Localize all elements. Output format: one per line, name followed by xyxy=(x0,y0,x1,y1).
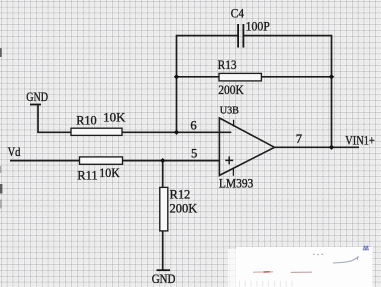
scan artifact left edge 3 xyxy=(0,184,2,194)
resistor R11 xyxy=(80,157,123,164)
watermark white box xyxy=(228,247,373,287)
svg-text:VIN1+: VIN1+ xyxy=(345,134,375,148)
designator tick top xyxy=(233,120,235,127)
capacitor C4 xyxy=(238,24,243,48)
scan artifact left edge 4 xyxy=(0,200,2,209)
wire GND stem top left xyxy=(37,105,39,133)
watermark faint grid ticks bottom xyxy=(239,281,292,287)
svg-text:200K: 200K xyxy=(218,83,244,97)
designator tick bottom xyxy=(232,168,234,176)
junction at pin5 / R12 xyxy=(160,158,165,163)
watermark red stroke left xyxy=(253,271,273,273)
svg-text:Vd: Vd xyxy=(8,145,21,159)
op-amp U3B xyxy=(219,118,274,176)
svg-text:U3B: U3B xyxy=(220,105,239,117)
plus symbol xyxy=(225,159,233,161)
svg-text:GND: GND xyxy=(26,90,48,104)
watermark scribble xyxy=(333,257,358,263)
wire right vertical of feedback xyxy=(331,35,333,148)
wire output pin 7 xyxy=(275,146,360,148)
junction at output / feedback right xyxy=(329,145,334,150)
wire top feedback left segment xyxy=(177,35,239,37)
wire R13 branch xyxy=(177,76,332,78)
junction at feedback right / R13 xyxy=(329,74,334,79)
svg-text:R10: R10 xyxy=(76,113,97,127)
watermark red-gray stroke right xyxy=(291,271,312,273)
wire R12 vertical branch xyxy=(162,161,164,270)
ground GND top-left xyxy=(26,90,48,105)
junction at feedback left / R13 xyxy=(174,74,179,79)
svg-text:LM393: LM393 xyxy=(219,177,253,191)
svg-text:GND: GND xyxy=(152,272,176,286)
svg-text:100P: 100P xyxy=(246,20,270,34)
scan artifact left edge 2 xyxy=(0,166,2,173)
ground GND bottom xyxy=(152,270,176,286)
wire pin 5 horizontal from Vd xyxy=(10,160,220,162)
svg-text:C4: C4 xyxy=(231,7,245,21)
svg-text:10K: 10K xyxy=(99,166,120,180)
resistor R13 xyxy=(219,73,261,81)
wire pin 6 horizontal xyxy=(37,131,231,133)
svg-text:6: 6 xyxy=(190,118,196,132)
svg-text:5: 5 xyxy=(191,146,197,160)
svg-text:R11: R11 xyxy=(77,168,98,182)
svg-text:R13: R13 xyxy=(218,58,237,72)
scan artifact left edge 1 xyxy=(0,48,2,57)
resistor R12 xyxy=(160,187,168,231)
watermark blue glyph xyxy=(363,246,369,250)
svg-text:200K: 200K xyxy=(170,202,198,216)
svg-text:R12: R12 xyxy=(170,188,191,202)
resistor R10 xyxy=(71,128,122,135)
junction at pin6 / feedback left xyxy=(174,130,179,135)
svg-text:7: 7 xyxy=(296,132,302,146)
watermark gray dots xyxy=(313,254,323,256)
svg-text:10K: 10K xyxy=(103,111,125,125)
wire top feedback right segment xyxy=(243,35,331,37)
wire left vertical of feedback xyxy=(176,35,178,133)
